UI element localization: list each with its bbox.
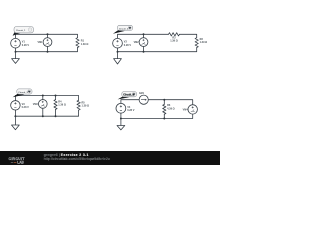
svg-text:Circuit_4: Circuit_4 [123,94,134,97]
svg-text:0.28 V: 0.28 V [127,109,135,112]
junction dots C3 [42,95,44,97]
ammeter AM1 [139,95,148,104]
voltmeter VM1 [43,38,52,47]
svg-text:VM3: VM3 [33,103,39,106]
svg-text:http://circuitlab.com/c/59bekq: http://circuitlab.com/c/59bekqar9d8c4e2u [44,157,110,161]
ground C1 [15,52,17,59]
wire VM3 stubs [42,96,44,117]
svg-text:Circuit_1: Circuit_1 [16,29,26,32]
wire bottom rail C3 [15,110,78,116]
wire V4 bottom stub [120,113,122,118]
wire bottom rail C1 [16,48,78,52]
wire top rail C2 right of R2 [180,34,197,37]
wire V3 bottom stub [14,110,16,116]
wire top rail C2 left of R2 [118,34,169,38]
callout Circuit_1 [13,32,21,36]
junction dots C4 [163,99,165,101]
svg-text:1.39 Ω: 1.39 Ω [200,41,208,44]
component labels [16,27,207,112]
ground C3 [14,116,16,125]
resistor R4 [54,100,57,110]
wire V1 bottom stub [15,48,17,52]
wire bottom rail C2 [118,48,197,52]
resistor R3 [195,38,198,48]
callout Circuit_4 [118,97,130,100]
voltage source V2 [113,38,123,48]
voltage source V3 [11,101,21,111]
svg-text:1.39 Ω: 1.39 Ω [58,104,66,107]
resistor R5 [77,100,80,110]
svg-text:VM2: VM2 [134,41,140,44]
callout Circuit_3 [13,94,25,97]
svg-text:0.28 V: 0.28 V [22,44,30,47]
wire VM1 bottom stub [47,47,49,52]
footer bar [0,151,220,165]
svg-text:VM1: VM1 [37,41,43,44]
voltmeter VM3 [38,100,47,109]
svg-text:Circuit_3: Circuit_3 [18,91,28,94]
wire top rail C1 [16,34,78,38]
wire R6 stubs [163,100,165,119]
wire top rail C4 right of AM1 [148,100,192,105]
wire V2 bottom stub [117,48,119,52]
svg-text:4.39 Ω: 4.39 Ω [167,107,175,110]
svg-text:AM1: AM1 [139,92,145,95]
resistor R2 [169,33,180,36]
wire VM1 top stub [47,34,49,37]
svg-text:0.28 V: 0.28 V [124,44,132,47]
svg-text:1.39 Ω: 1.39 Ω [81,43,89,46]
wire VM2 stubs [143,34,145,51]
svg-text:0.28 V: 0.28 V [22,106,30,109]
svg-text:Circuit_2: Circuit_2 [119,27,129,30]
ground C2 [117,52,119,59]
junction dots C2 [143,33,145,35]
logo CIRCUIT LAB [9,153,110,165]
callout Circuit_2 [113,30,125,34]
svg-text:LAB: LAB [17,161,24,165]
resistor R6 [163,104,166,114]
voltmeter VM4 [188,105,197,114]
wire top rail C3 [15,96,78,101]
voltmeter VM2 [139,38,148,47]
wire R4 stubs [55,96,57,117]
wire bottom rail C4 [121,114,193,118]
voltage source V4 [116,103,126,113]
svg-text:1.39 Ω: 1.39 Ω [82,105,90,108]
junction dots C1 [47,33,49,35]
svg-text:VM4: VM4 [183,108,189,111]
ground C4 [120,119,122,126]
wire top rail C4 left of AM1 [121,100,139,104]
svg-text:1.39 Ω: 1.39 Ω [170,40,178,43]
voltage source V1 [11,38,21,48]
resistor R1 [76,38,79,48]
